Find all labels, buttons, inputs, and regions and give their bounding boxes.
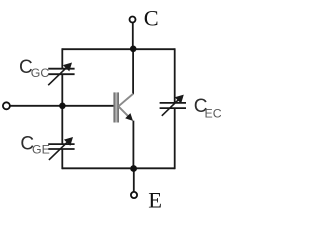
- svg-text:GC: GC: [31, 66, 50, 80]
- svg-text:EC: EC: [205, 107, 222, 121]
- svg-text:GE: GE: [32, 142, 50, 156]
- svg-text:C: C: [144, 6, 159, 31]
- svg-text:E: E: [148, 188, 162, 213]
